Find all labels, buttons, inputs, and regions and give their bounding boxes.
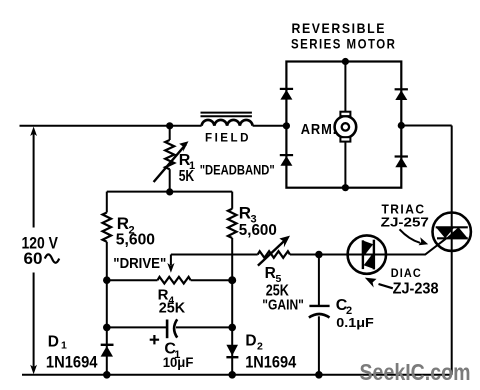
resistor R2 zigzag bbox=[103, 213, 112, 242]
diac right bar bbox=[373, 240, 375, 270]
bridge diode lower-right triangle bbox=[395, 157, 407, 167]
svg-text:5K: 5K bbox=[179, 168, 195, 185]
diode D2 bar bbox=[226, 356, 238, 358]
sine symbol for 60 Hz bbox=[45, 254, 59, 262]
junction dot R1 top bbox=[166, 122, 173, 129]
svg-text:2: 2 bbox=[257, 340, 263, 352]
wire top rail right segment bbox=[253, 125, 287, 127]
wire bridge right to triac corner bbox=[401, 125, 451, 127]
inductor core line 1 bbox=[201, 112, 252, 114]
diode D1 triangle bbox=[101, 346, 113, 357]
arrowhead R5 arrow bbox=[279, 236, 290, 248]
wire triac vertical bbox=[451, 126, 453, 375]
label arrow to diac bbox=[379, 284, 393, 288]
inductor FIELD coil bbox=[202, 120, 253, 126]
svg-text:5,600: 5,600 bbox=[116, 231, 155, 248]
diac left bar bbox=[362, 240, 364, 269]
label arrow to triac bbox=[400, 229, 421, 243]
triac circle ZJ-257 bbox=[433, 213, 471, 251]
wire right column below R3 bbox=[231, 238, 233, 375]
bridge diode lower-left triangle bbox=[280, 156, 292, 166]
inductor core line 2 bbox=[201, 115, 252, 117]
wire C1 row left bbox=[107, 326, 167, 328]
diac circle ZJ-238 bbox=[348, 235, 386, 273]
capacitor C2 top plate bbox=[309, 305, 329, 307]
wire C1 row right bbox=[176, 326, 232, 328]
junction dot R4 right bbox=[228, 276, 236, 284]
junction dot bottom rail C2 bbox=[315, 371, 323, 379]
diac bottom triangle bbox=[364, 253, 373, 268]
svg-text:D: D bbox=[48, 334, 59, 351]
bridge diode upper-left bar bbox=[280, 88, 293, 90]
motor ARM outer circle bbox=[335, 116, 357, 138]
wire 120V source line upper bbox=[33, 133, 35, 228]
wire gain row right to diac and triac gate bend bbox=[290, 239, 446, 255]
diode D2 triangle bbox=[226, 345, 238, 356]
arrowhead R1 arrow bbox=[179, 141, 188, 151]
svg-text:0.1μF: 0.1μF bbox=[336, 315, 374, 330]
svg-text:D: D bbox=[245, 333, 256, 350]
junction dot bridge bottom center bbox=[342, 184, 349, 191]
junction dot C1 left bbox=[103, 324, 111, 332]
wire inner box top bbox=[107, 191, 232, 193]
svg-text:"GAIN": "GAIN" bbox=[262, 296, 304, 313]
motor ARM inner circle bbox=[342, 123, 349, 130]
triac top bar bbox=[436, 226, 468, 228]
junction dot bridge left mid bbox=[283, 122, 290, 129]
junction dot bottom rail D2 bbox=[228, 371, 236, 379]
junction dot C1 right D2 top bbox=[228, 324, 236, 332]
svg-text:1N1694: 1N1694 bbox=[245, 353, 297, 371]
wire 120V source line lower bbox=[33, 273, 35, 368]
svg-text:R: R bbox=[265, 265, 276, 282]
svg-text:"DEADBAND": "DEADBAND" bbox=[200, 161, 275, 177]
svg-text:60: 60 bbox=[24, 249, 43, 268]
junction dot bottom rail D1 bbox=[103, 371, 111, 379]
arrowhead label arrow diac bbox=[364, 277, 377, 288]
bridge diode lower-right bar bbox=[395, 155, 408, 157]
wire bottom rail bbox=[22, 374, 452, 376]
arrow through R5 bbox=[258, 240, 286, 266]
motor bridge rectangle bbox=[286, 62, 401, 188]
svg-text:1: 1 bbox=[61, 340, 67, 352]
bridge diode lower-left bar bbox=[280, 154, 293, 156]
svg-text:REVERSIBLE: REVERSIBLE bbox=[292, 20, 387, 36]
wire left column below R2 bbox=[106, 242, 108, 375]
wire R1 bottom lead bbox=[169, 169, 171, 191]
svg-text:10μF: 10μF bbox=[163, 354, 194, 370]
junction dot bridge right mid bbox=[398, 122, 405, 129]
wire C2 bottom lead bbox=[318, 316, 320, 375]
wire gain row bbox=[171, 254, 258, 256]
bridge diode upper-right triangle bbox=[395, 90, 407, 100]
arrowhead 120V up bbox=[30, 127, 37, 137]
wire wiper DRIVE vertical bbox=[170, 255, 172, 266]
resistor R4 zigzag bbox=[158, 277, 191, 284]
capacitor C1 left plate bbox=[166, 320, 169, 339]
svg-text:ARM.: ARM. bbox=[301, 122, 338, 138]
junction dot R4 left bbox=[103, 276, 111, 284]
arrowhead 120V down bbox=[30, 365, 37, 375]
svg-text:1N1694: 1N1694 bbox=[46, 353, 98, 371]
resistor R5 zigzag bbox=[258, 251, 290, 258]
wire top rail left segment bbox=[20, 125, 202, 127]
svg-text:25K: 25K bbox=[159, 300, 186, 317]
arrowhead label arrow triac bbox=[419, 237, 429, 245]
junction dot R1 bottom bbox=[166, 188, 173, 195]
svg-text:SERIES MOTOR: SERIES MOTOR bbox=[291, 36, 396, 52]
resistor R3 zigzag bbox=[228, 209, 237, 238]
svg-text:5,600: 5,600 bbox=[239, 222, 277, 239]
svg-text:FIELD: FIELD bbox=[205, 131, 251, 145]
svg-text:"DRIVE": "DRIVE" bbox=[113, 255, 166, 272]
capacitor C1 right curved plate bbox=[174, 319, 177, 337]
arrowhead DRIVE wiper bbox=[167, 263, 174, 273]
junction dot bridge top center bbox=[342, 58, 349, 65]
resistor R1 zigzag bbox=[165, 140, 174, 169]
svg-text:R: R bbox=[239, 204, 251, 223]
triac left triangle bbox=[436, 227, 455, 238]
motor brush cap bottom bbox=[340, 137, 350, 141]
wire R1 top lead bbox=[169, 126, 171, 140]
bridge diode upper-right bar bbox=[395, 88, 408, 90]
wire R4 row right bbox=[191, 279, 233, 281]
bridge diode upper-left triangle bbox=[280, 90, 292, 100]
wire right column x232 bbox=[231, 192, 233, 209]
svg-text:R: R bbox=[117, 214, 129, 233]
wire left column x107 bbox=[106, 192, 108, 213]
triac right triangle bbox=[446, 227, 468, 238]
svg-text:DIAC: DIAC bbox=[391, 266, 422, 280]
plus sign of C1 bbox=[150, 335, 159, 344]
svg-text:ZJ-257: ZJ-257 bbox=[381, 214, 429, 229]
junction dot R5 C2 node bbox=[315, 251, 323, 259]
motor brush cap top bbox=[340, 112, 350, 116]
capacitor C2 curved plate bbox=[309, 314, 330, 318]
wire R4 row left bbox=[107, 279, 158, 281]
diac top triangle bbox=[364, 241, 373, 256]
triac bottom bar bbox=[437, 237, 468, 239]
diode D1 bar bbox=[101, 344, 114, 346]
wire bridge center vertical lower bbox=[344, 142, 346, 188]
wire bridge center vertical upper bbox=[344, 62, 346, 112]
arrow through R1 bbox=[154, 144, 186, 182]
svg-text:SeekIC.com: SeekIC.com bbox=[360, 359, 471, 385]
wire C2 top lead bbox=[318, 255, 320, 306]
svg-text:ZJ-238: ZJ-238 bbox=[393, 281, 439, 298]
